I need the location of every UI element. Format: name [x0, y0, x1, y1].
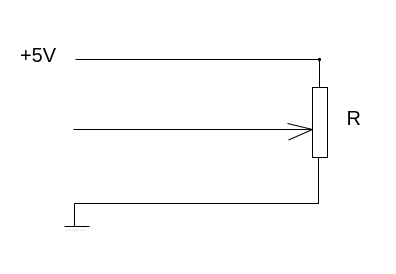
svg-text:+5V: +5V	[20, 45, 57, 67]
svg-text:R: R	[347, 108, 361, 130]
